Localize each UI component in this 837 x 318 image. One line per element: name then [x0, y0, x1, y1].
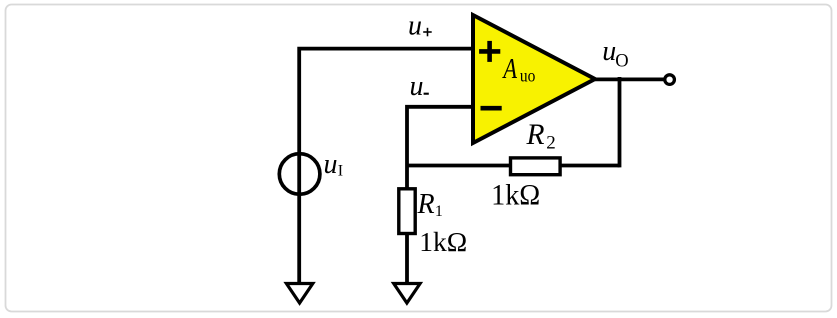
label u_I	[324, 149, 344, 180]
label u+	[408, 11, 432, 42]
svg-text:u: u	[324, 149, 338, 180]
svg-text:R: R	[526, 119, 545, 151]
wire: feedback horizontal	[407, 164, 620, 168]
wire: feedback riser from output node	[618, 77, 622, 167]
svg-text:A: A	[502, 52, 518, 84]
svg-text:u: u	[410, 71, 424, 102]
resistor R1 box	[399, 189, 415, 234]
label R1	[417, 189, 443, 220]
svg-text:uo: uo	[520, 65, 535, 85]
label u_O	[602, 36, 628, 71]
wire: output	[595, 78, 664, 82]
svg-text:I: I	[338, 163, 343, 180]
op-amp − input marking	[481, 106, 502, 111]
svg-text:1kΩ: 1kΩ	[491, 179, 540, 212]
label A_uo	[502, 52, 536, 85]
label R2	[526, 119, 556, 154]
ground (left, under source)	[286, 284, 312, 304]
voltage source u_I circle	[279, 154, 320, 195]
wire: inverting input down through R1 to ground	[407, 107, 473, 284]
svg-text:u: u	[602, 36, 616, 67]
svg-text:R: R	[417, 189, 435, 220]
svg-text:u: u	[408, 11, 422, 42]
op-amp U1 triangle	[473, 15, 595, 143]
svg-text:1: 1	[435, 203, 443, 220]
wire: non-inverting input from source top	[299, 49, 473, 284]
svg-text:2: 2	[546, 133, 556, 154]
resistor R2 box	[511, 158, 561, 175]
svg-text:1kΩ: 1kΩ	[419, 226, 467, 257]
svg-text:O: O	[615, 51, 628, 71]
label u-	[410, 71, 429, 102]
output terminal node	[665, 75, 675, 85]
op-amp + input marking	[479, 41, 500, 62]
ground (right, under R1)	[394, 284, 420, 304]
